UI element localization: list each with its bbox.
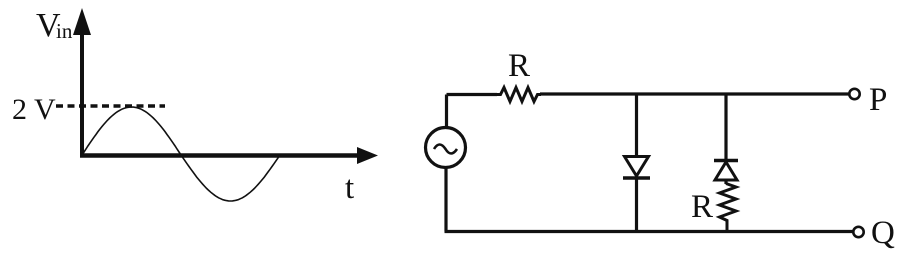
svg-text:R: R <box>508 48 530 84</box>
svg-text:in: in <box>56 19 73 43</box>
svg-text:Q: Q <box>871 215 895 251</box>
svg-text:P: P <box>869 82 887 118</box>
svg-text:t: t <box>345 170 354 206</box>
svg-text:2 V: 2 V <box>12 93 56 126</box>
svg-text:R: R <box>691 189 713 225</box>
